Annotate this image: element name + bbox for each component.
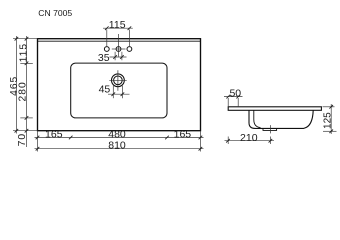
svg-text:45: 45 — [99, 84, 111, 96]
svg-text:50: 50 — [229, 88, 241, 100]
side view bowl outer profile — [249, 110, 313, 128]
dimension 35 (faucet hole dia) — [110, 52, 127, 61]
drain centerline horizontal — [109, 79, 126, 81]
side view bowl inner wall — [254, 110, 261, 127]
drain stub centerline — [269, 125, 271, 133]
bottom extension line left — [37, 131, 39, 152]
bottom extension line right — [199, 131, 201, 152]
bottom ticks — [36, 136, 203, 151]
faucet hole right — [127, 47, 132, 52]
faucet centerline horizontal — [112, 48, 126, 50]
svg-text:210: 210 — [240, 132, 258, 144]
basin back rim line — [38, 40, 201, 42]
faucet hole middle — [116, 47, 121, 52]
left overall dimension line 465 — [15, 36, 17, 134]
basin outer rect (top view) — [38, 39, 201, 131]
side view slab — [228, 107, 321, 111]
svg-text:465: 465 — [9, 76, 20, 96]
dimension 115 top (hole spacing) — [103, 28, 133, 46]
drain centerline vertical — [117, 70, 119, 91]
svg-text:165: 165 — [174, 129, 192, 141]
svg-text:125: 125 — [322, 112, 333, 129]
dimension 210 (side) — [225, 137, 275, 145]
svg-text:165: 165 — [45, 129, 63, 141]
svg-text:70: 70 — [17, 133, 28, 146]
left extension line bowl bottom — [20, 117, 33, 119]
faucet centerline vertical — [118, 34, 120, 57]
bottom chain dimension line — [35, 137, 204, 139]
left chain ticks — [15, 37, 29, 133]
bowl rounded rect — [71, 63, 167, 118]
left extension line top — [13, 38, 38, 40]
faucet hole left — [104, 47, 109, 52]
drain outer circle — [112, 74, 125, 87]
svg-text:115: 115 — [109, 19, 126, 31]
dimension 125 (side) — [323, 104, 337, 134]
svg-text:115: 115 — [19, 43, 30, 62]
side view drain stub — [263, 128, 277, 130]
dimension 50 (side) — [224, 97, 243, 107]
svg-text:810: 810 — [108, 140, 126, 152]
dimension 45 (drain dia) — [108, 86, 130, 98]
drain inner circle — [114, 76, 123, 85]
bottom overall dimension line 810 — [35, 148, 204, 150]
left extension line bottom — [13, 130, 38, 132]
left dimension chain line — [26, 36, 28, 147]
left extension line bowl top — [20, 63, 33, 65]
svg-text:CN 7005: CN 7005 — [38, 8, 72, 18]
svg-text:35: 35 — [98, 52, 110, 64]
